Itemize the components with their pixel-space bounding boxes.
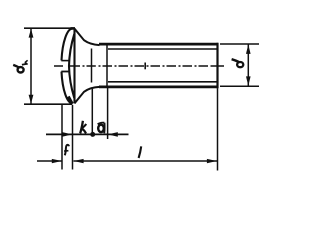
label a xyxy=(98,123,105,134)
thread start line xyxy=(106,44,108,87)
slot notch bottom wall xyxy=(61,71,69,73)
dk dimension line xyxy=(30,29,32,104)
screw end line xyxy=(216,43,218,89)
dk bottom extension line xyxy=(24,103,72,105)
chain dot at k/a junction xyxy=(90,132,95,137)
d top extension line xyxy=(220,43,259,45)
label l xyxy=(139,146,142,158)
thread minor diameter line top xyxy=(108,48,217,50)
head max-diameter edge line xyxy=(73,29,75,104)
centerline middle tick xyxy=(144,63,146,70)
label f xyxy=(64,145,69,155)
a right extension line xyxy=(107,87,109,139)
shank top edge (bold) xyxy=(99,43,218,46)
head-shank junction line xyxy=(91,49,93,83)
head: dome outer arc upper part xyxy=(62,29,73,61)
k arrow (points right, tip at max-dia ext) xyxy=(62,132,72,137)
apex blob top xyxy=(71,27,76,30)
f extension line (dome tip) xyxy=(61,105,63,170)
cone bearing surface lower slant with fillet xyxy=(75,87,100,104)
cone bearing surface upper slant with fillet xyxy=(75,29,100,45)
dk arrow up xyxy=(29,29,34,38)
l arrow left (points left, tip at max-dia ext) xyxy=(74,159,84,163)
l arrow right (points right, tip at end ext) xyxy=(207,159,217,163)
d bottom extension line xyxy=(220,85,259,87)
k/f/l extension line (max diameter plane) xyxy=(72,105,74,170)
f dimension line left piece with arrow xyxy=(37,160,62,162)
slot notch top wall xyxy=(61,60,69,62)
centerline (screw axis, dash-dot) xyxy=(54,65,224,67)
label dk xyxy=(13,60,27,72)
head: dome outer arc lower part xyxy=(62,72,73,104)
dk arrow down xyxy=(29,95,34,104)
label k xyxy=(80,121,86,134)
l right extension line (screw end, continues end line) xyxy=(217,88,219,170)
d arrow up xyxy=(246,44,251,54)
k dimension line with outside arrow xyxy=(46,133,129,135)
thread minor diameter line bottom xyxy=(108,81,217,83)
l dimension line xyxy=(74,160,218,162)
shank bottom edge (bold) xyxy=(99,86,218,89)
label d xyxy=(232,59,244,67)
d arrow down xyxy=(246,76,251,86)
bottom junction blob xyxy=(68,97,72,104)
dk top extension line xyxy=(24,27,74,29)
d dimension line xyxy=(247,45,249,87)
a arrow (points left, tip at thread-start ext) xyxy=(108,132,118,137)
f arrow (points right, tip at dome-tip ext) xyxy=(52,159,62,163)
k right / a left extension line xyxy=(91,87,93,137)
slot bottom arc (curved slot ground) xyxy=(69,34,74,98)
